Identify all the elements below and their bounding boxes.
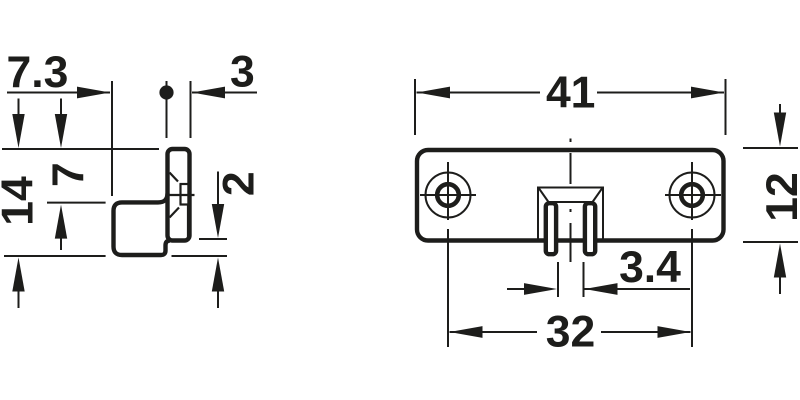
tick line 12 top: [743, 147, 798, 149]
svg-text:2: 2: [215, 171, 264, 196]
dim 12 top arrow (points down): [779, 104, 781, 125]
arrowhead 32 right: [658, 326, 691, 338]
dimension line 32 right part: [601, 331, 691, 333]
arrowhead 7.3 (points right): [77, 87, 110, 99]
dimension line 41 left part: [417, 92, 541, 94]
extension line 41 right: [725, 79, 727, 135]
extension line of hook top edge: [47, 202, 106, 204]
reference dot line: [166, 81, 168, 138]
clip housing chamfer right: [593, 189, 603, 203]
dim 7 bottom arrow (points up): [60, 234, 62, 250]
dim 14 top arrow (points down): [18, 99, 20, 123]
svg-text:41: 41: [546, 69, 596, 118]
clip housing inner edge: [549, 201, 593, 203]
plate cross-section (side view body): [168, 149, 190, 241]
dim 3.4 left arrow (outside, points right): [507, 288, 528, 290]
arrowhead 41 left: [417, 87, 450, 99]
dim 14 bottom arrow (points up): [18, 285, 20, 308]
vertical centre line (chain line): [570, 139, 572, 263]
extension line plate back face (for dim 3): [190, 81, 192, 138]
arrowhead 3 (points left): [192, 87, 225, 99]
extension line 41 left: [414, 79, 416, 135]
svg-text:12: 12: [758, 172, 800, 222]
left hole cross: vertical: [447, 162, 449, 220]
dim 2 top arrow (points down): [217, 172, 219, 211]
reference dot (shared origin of dims 7.3 and 3): [159, 85, 173, 99]
svg-text:3.4: 3.4: [619, 243, 681, 292]
slot section detail: lower diagonal: [170, 208, 180, 218]
dim 3.4 right arrow (outside, points left): [585, 288, 691, 290]
tick line 12 bottom: [743, 241, 798, 243]
extension line of plate top edge (left): [2, 148, 159, 150]
svg-text:14: 14: [0, 176, 42, 226]
svg-text:3: 3: [230, 47, 255, 96]
extension line 32 right (hole axis): [691, 229, 693, 347]
right hole cross: vertical: [691, 162, 693, 220]
clip right leg (bold): [585, 203, 595, 254]
extension line hook front face (for dim 7.3): [111, 81, 113, 196]
arrowhead 41 right: [691, 87, 724, 99]
slot section detail: lower notch horizontal: [180, 203, 189, 205]
dimension line 7.3: [7, 92, 110, 94]
mounting plate front view: [417, 150, 724, 241]
dim 12 bottom arrow (points up): [779, 272, 781, 294]
hook profile (side view): [114, 194, 171, 256]
clip housing chamfer left: [539, 189, 549, 203]
slot section detail: lower notch vertical: [187, 205, 189, 239]
dimension line 3: [192, 92, 257, 94]
slot section detail: centre line: [168, 194, 195, 196]
extension line of hook bottom edge: [4, 255, 227, 257]
slot section detail: upper notch horizontal: [180, 183, 190, 185]
clip housing outline (thin): [538, 188, 603, 241]
svg-text:32: 32: [546, 308, 596, 357]
clip left leg (bold): [546, 203, 556, 254]
dim 2 bottom arrow (points up): [217, 285, 219, 308]
extension line 3.4 right: [583, 262, 585, 297]
right screw hole: outer circle: [670, 173, 715, 218]
left screw hole: outer circle: [426, 173, 471, 218]
slot section detail: upper notch vertical: [179, 184, 181, 205]
left hole cross: horizontal: [420, 194, 476, 196]
slot section detail: upper diagonal: [170, 173, 179, 182]
arrowhead 32 left: [450, 326, 483, 338]
right screw hole: bore (bold ring): [681, 184, 703, 206]
extension line of plate bottom edge (tick for dim 2): [199, 238, 227, 240]
left screw hole: bore (bold ring): [437, 184, 459, 206]
svg-text:7: 7: [44, 162, 93, 187]
dim 7 top arrow (points down): [60, 99, 62, 123]
dimension line 41 right part: [597, 92, 724, 94]
dimension line 32 left part: [450, 331, 538, 333]
extension line 32 left (hole axis): [447, 229, 449, 347]
extension line 3.4 left: [557, 262, 559, 297]
svg-text:7.3: 7.3: [6, 48, 68, 97]
right hole cross: horizontal: [665, 194, 721, 196]
